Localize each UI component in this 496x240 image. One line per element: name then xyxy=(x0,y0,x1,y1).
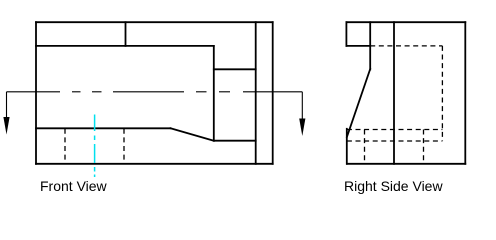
front view horizontal edge y69 xyxy=(214,68,256,70)
front view right edge xyxy=(272,22,274,164)
front view vertical edge x214 xyxy=(213,46,215,141)
side view hidden edge x423 xyxy=(423,130,425,164)
right arrow shaft xyxy=(301,92,303,120)
front view horizontal edge y141 xyxy=(214,140,256,142)
side view hidden edge y141 xyxy=(347,140,443,142)
side view slanted edge xyxy=(347,69,370,137)
front view center line segment 7 xyxy=(243,91,302,93)
cyan center line xyxy=(94,115,96,178)
front view top band divider xyxy=(125,22,127,46)
front view hidden edge right xyxy=(123,129,125,164)
side view notch bottom edge xyxy=(346,45,370,47)
front view slanted edge xyxy=(171,128,214,140)
side view right edge xyxy=(464,22,466,164)
front view inner vertical x256 xyxy=(255,22,257,164)
side view hidden edge x442 xyxy=(441,46,443,141)
side view bottom edge xyxy=(347,163,465,165)
left arrow shaft xyxy=(6,92,8,118)
label Right Side View xyxy=(344,178,443,194)
label Front View xyxy=(40,178,107,194)
front view center line dash 5 xyxy=(196,91,207,93)
side view hidden edge y46 xyxy=(370,45,442,47)
front view horizontal edge y128 xyxy=(36,127,171,129)
front view center line dash 4 xyxy=(113,91,184,93)
side view lower left edge xyxy=(346,129,348,164)
front view hidden edge left xyxy=(64,129,66,164)
front view bottom edge xyxy=(36,163,273,165)
side view top edge xyxy=(346,21,465,23)
side view notch left edge xyxy=(345,22,347,46)
side view inner vertical x394 xyxy=(393,22,395,164)
front view top edge xyxy=(36,21,273,23)
front view center line dash 2 xyxy=(72,91,81,93)
front view center line segment 1 xyxy=(7,91,61,93)
left arrow head xyxy=(3,117,9,135)
front view left edge xyxy=(35,22,37,164)
front view horizontal edge y46 xyxy=(36,45,214,47)
right arrow head xyxy=(299,119,305,137)
front view center line dash 3 xyxy=(92,91,102,93)
side view hidden edge y129 xyxy=(347,129,443,131)
front view center line dash 6 xyxy=(219,91,230,93)
side view vertical edge x370 xyxy=(369,22,371,69)
side view hidden edge x364 xyxy=(364,130,366,164)
